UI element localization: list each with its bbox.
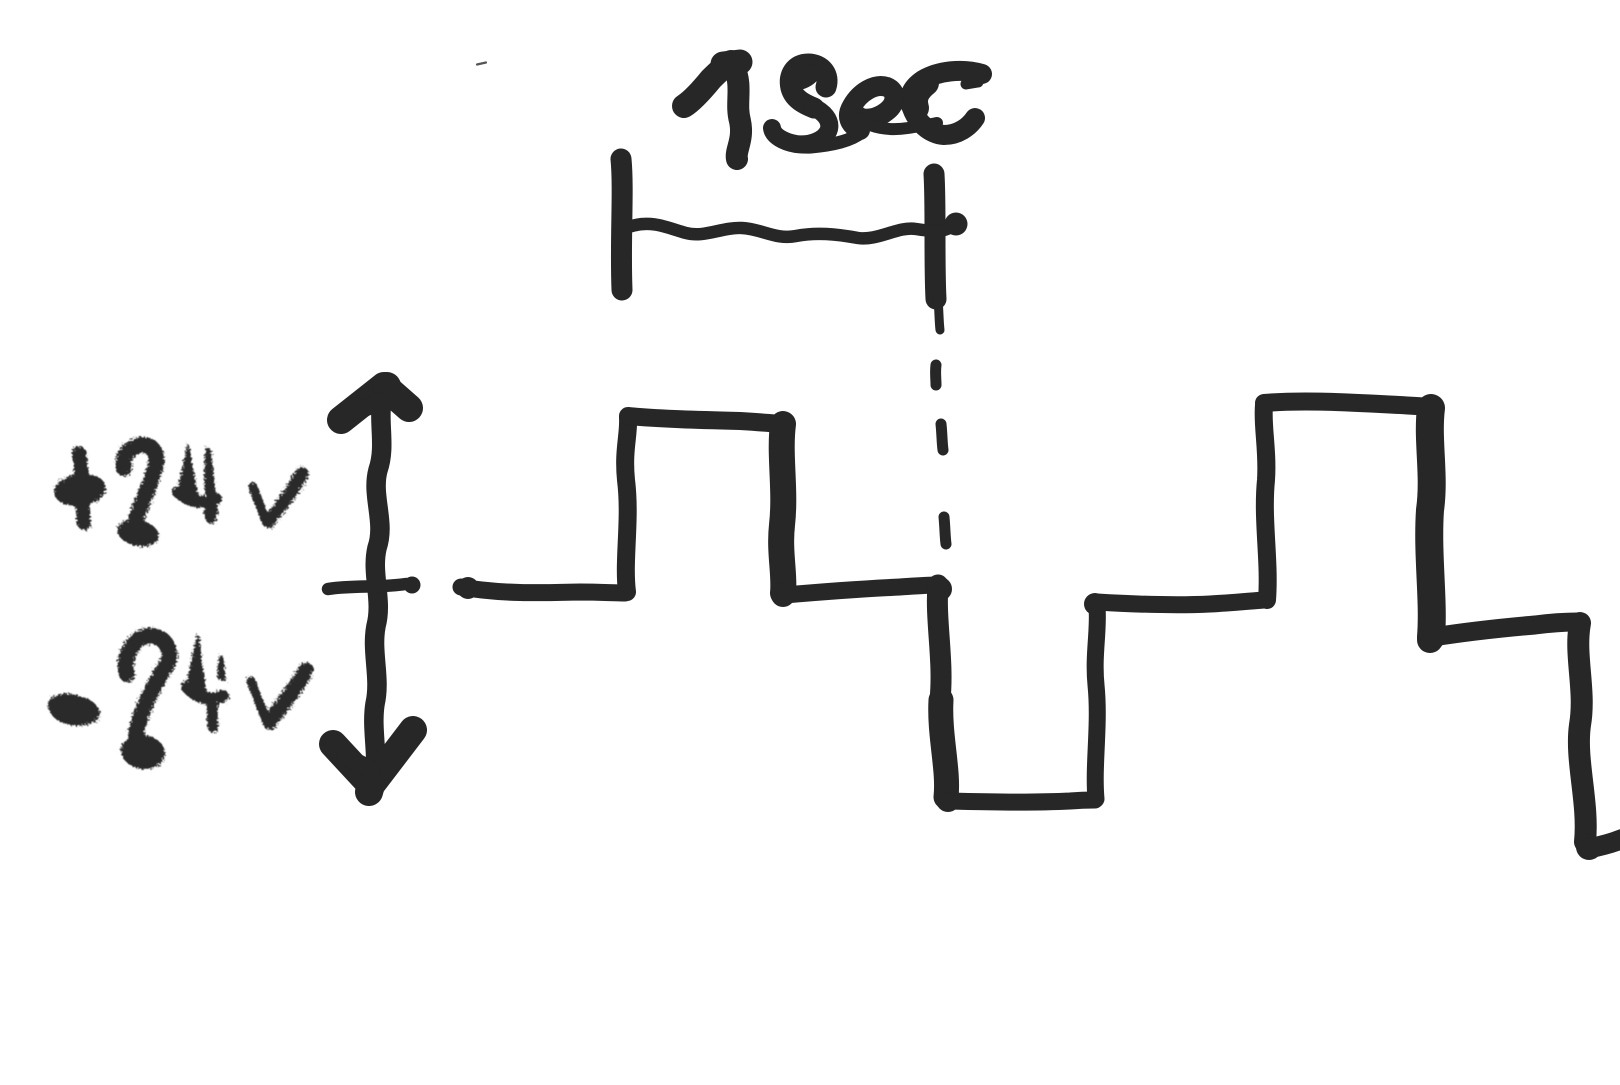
- waveform corner blob at falling edge 4 foot: [1576, 834, 1602, 860]
- waveform rising edge 2: [1095, 607, 1097, 799]
- waveform -24v bottom segment: [950, 800, 1095, 802]
- label "1sec": digit 1 apex: [723, 62, 740, 64]
- label "1sec": letter s top arm fill: [785, 59, 826, 95]
- dimension bracket right tick: [934, 174, 936, 299]
- dashed reference line dash 3: [944, 517, 946, 544]
- label "-24v": digit 2 bottom blob: [119, 732, 167, 772]
- label "+24v": digit 2 bottom blob: [115, 516, 161, 550]
- waveform corner blob at rising edge 2 top: [1084, 593, 1106, 615]
- label "-24v": minus blob: [48, 694, 100, 726]
- dimension bracket left tick: [621, 159, 622, 290]
- label "-24v": digit 4 left spike: [186, 634, 207, 695]
- label "+24v": digit 4 right vertical: [204, 447, 218, 518]
- stray pen mark top-left: [477, 63, 486, 65]
- waveform corner blob at falling edge 3 foot: [1417, 627, 1443, 653]
- waveform corner blob at falling edge 2 top: [928, 577, 952, 601]
- amplitude arrow shaft: [374, 392, 384, 780]
- label "-24v": letter v entry stroke: [251, 681, 268, 725]
- waveform rising edge 3: [1264, 405, 1268, 600]
- waveform start dot: [457, 577, 479, 599]
- label "-24v": digit 4 bottom bar: [187, 687, 223, 699]
- waveform +24v top segment 2: [1264, 401, 1430, 407]
- label "+24v": digit 4 left spike: [177, 444, 199, 500]
- waveform +24v top segment 1: [628, 416, 781, 424]
- waveform falling edge 1 (double stroked): [781, 424, 783, 593]
- dashed reference line dash 1: [930, 365, 941, 385]
- label "+24v": letter v entry stroke: [253, 487, 267, 523]
- dashed reference line dash 2: [941, 424, 943, 450]
- dimension bracket knob at right end: [945, 213, 968, 236]
- dimension bracket wavy connector line: [632, 224, 947, 239]
- waveform zero-level segment 2: [785, 585, 937, 595]
- zero level tick on arrow: [328, 584, 406, 589]
- label "1sec": baseline stroke from e to c: [858, 118, 937, 129]
- waveform falling edge 2: [937, 585, 946, 799]
- dimension bracket right tick thin tail: [938, 299, 940, 330]
- waveform mid-level segment: [1097, 600, 1264, 605]
- waveform after-pulse level segment: [1433, 622, 1578, 637]
- label "-24v": digit 2 top arc and diagonal: [126, 636, 170, 738]
- label "1sec": letter c bar end step: [966, 82, 978, 84]
- waveform bottom segment exiting right edge: [1590, 839, 1620, 848]
- label "1sec": digit 1 stem: [734, 67, 741, 159]
- waveform corner blob at falling edge 2 foot: [936, 788, 960, 812]
- amplitude arrow top head: [341, 386, 409, 420]
- label "+24v": digit 4 bottom bar: [178, 492, 216, 502]
- label "-24v": digit 4 descender: [207, 699, 219, 727]
- waveform falling edge 4: [1578, 623, 1585, 842]
- waveform falling edge 3 (double stroked): [1429, 408, 1432, 637]
- waveform corner blob at falling edge 1 foot: [771, 583, 795, 607]
- label "1sec": digit 1 upstroke: [684, 62, 731, 106]
- waveform rising edge 1: [625, 418, 628, 592]
- label "+24v": letter v blade: [262, 467, 309, 529]
- label "1sec": letter s top curl: [790, 64, 827, 108]
- label "1sec": letter c body: [910, 71, 982, 135]
- label "-24v": digit 4 right spike: [217, 655, 226, 681]
- label "1sec": baseline stroke under s: [772, 128, 862, 147]
- label "1sec": letter e loop: [849, 86, 895, 130]
- waveform zero-level segment 1: [461, 587, 625, 593]
- label "1sec": letter s bottom bowl: [772, 107, 829, 144]
- amplitude arrow bottom head: [333, 730, 413, 785]
- label "+24v": digit 2 top arc and diagonal: [123, 445, 156, 522]
- label "1sec": letter c left thickening: [915, 83, 926, 108]
- label "+24v": plus vertical stroke: [79, 453, 84, 523]
- label "+24v": plus horizontal blob: [52, 471, 108, 509]
- label "-24v": letter v blade: [261, 663, 314, 731]
